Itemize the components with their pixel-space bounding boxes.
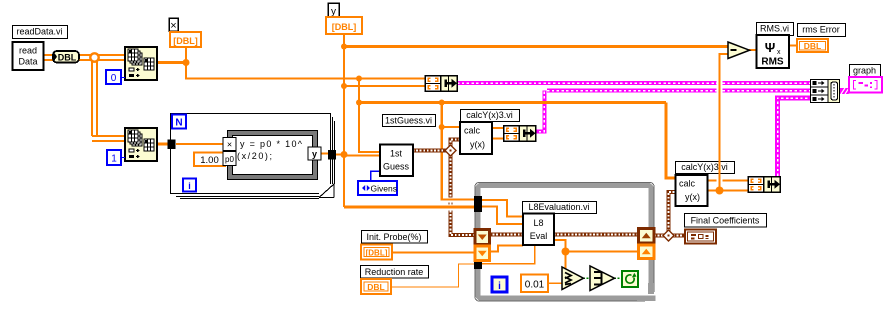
- Reduction rate label: [361, 266, 429, 279]
- for loop N: [171, 114, 335, 199]
- svg-text:×: ×: [227, 140, 232, 150]
- formula p0 terminal: [223, 152, 236, 166]
- wire: y array out of for loop: [336, 153, 344, 155]
- svg-text:p0: p0: [225, 155, 234, 164]
- for loop N badge: [172, 115, 186, 129]
- wire: L8 Eval out to shift register and compare: [554, 240, 640, 270]
- wire: tunnel1 x array to L8 Eval: [481, 200, 523, 217]
- 1st Guess node: [380, 145, 413, 177]
- wire: cluster out of loop to diamond 2: [654, 234, 664, 238]
- svg-text:0: 0: [111, 73, 117, 84]
- svg-text:Guess: Guess: [383, 162, 410, 172]
- svg-text:0.01: 0.01: [525, 280, 545, 291]
- RMS node: [757, 35, 790, 68]
- svg-text:Final Coefficients: Final Coefficients: [691, 215, 760, 225]
- RMS.vi label: [757, 23, 794, 36]
- wire: 0.01 to greater-equal: [548, 282, 564, 284]
- build array node: [810, 80, 840, 103]
- wire: cluster shift register to L8 Eval: [489, 233, 523, 237]
- wire: subtract out to RMS: [749, 49, 757, 51]
- shift register left probe (orange): [475, 246, 490, 261]
- DBL wire badge: [53, 51, 79, 63]
- index array node 2: [125, 128, 157, 161]
- svg-text:rms Error: rms Error: [802, 25, 840, 35]
- y label small box: [328, 3, 339, 18]
- svg-text:i: i: [498, 281, 501, 292]
- greater or equal node: [562, 267, 584, 290]
- wire: inside for loop to formula x: [176, 143, 229, 145]
- Final Coefficients label: [685, 214, 767, 228]
- wire: subtract feed over label: [718, 160, 720, 175]
- svg-text:calc: calc: [464, 126, 481, 136]
- junction on 2D wire: [90, 53, 98, 61]
- junction diamond 1: [445, 145, 456, 156]
- for loop i badge: [183, 179, 196, 192]
- calcY(x)3.vi label 2: [676, 162, 735, 174]
- wire: x array branch down (vertical v2): [356, 76, 380, 153]
- svg-text:Eval: Eval: [530, 231, 548, 241]
- wire: x array crossing over magenta: [537, 101, 553, 104]
- wire: readData 2D array to index arrays: [44, 55, 125, 141]
- svg-text:DBL: DBL: [804, 41, 821, 51]
- svg-text:(x/20);: (x/20);: [237, 151, 272, 161]
- wire: tunnel2 y array to L8 Eval: [481, 207, 523, 225]
- readData.vi label: [13, 26, 68, 39]
- while loop tunnel reduction: [474, 259, 482, 270]
- wire: y array into 1st Guess: [344, 155, 380, 157]
- formula node: [228, 131, 318, 180]
- calcY(x)3.vi label 1: [461, 110, 520, 122]
- constant 1.00: [194, 153, 225, 167]
- Final Coefficients indicator: [685, 230, 716, 244]
- wire: probe shift register to L8 Eval: [489, 246, 523, 252]
- wire: bundle3 cluster to build array (magenta 3): [778, 98, 811, 176]
- wire: cluster diamond2 to final coefficients: [673, 234, 686, 238]
- svg-text:Givens: Givens: [371, 183, 397, 193]
- svg-text:i: i: [188, 181, 191, 191]
- svg-text:readData.vi: readData.vi: [16, 27, 62, 37]
- wire: L8 Eval cluster out to right shift register: [554, 233, 640, 237]
- svg-text:y(x): y(x): [470, 140, 485, 150]
- wire: cluster diamond2 up to calc2: [669, 192, 677, 231]
- wire: bundle2 cluster to build array (magenta 2): [534, 91, 544, 132]
- wire: x array to calc1/calc2 (horizontal C): [356, 100, 676, 179]
- svg-text:Ψ: Ψ: [765, 40, 776, 55]
- constant 0: [106, 70, 125, 84]
- L8 Eval node: [523, 214, 554, 246]
- wire: calc2 out2 to bundle3 and subtract: [707, 54, 748, 195]
- wire: calc2 out1 to bundle3: [707, 179, 717, 181]
- wire: index array 1 output / x array constant: [157, 47, 425, 79]
- svg-text:1st: 1st: [390, 149, 403, 159]
- L8Evaluation.vi label: [523, 202, 597, 214]
- shift register left cluster (brown): [475, 230, 490, 245]
- index array node 1: [125, 47, 157, 80]
- svg-text:1: 1: [111, 154, 117, 165]
- svg-text:y: y: [312, 149, 317, 159]
- wire: y array to bundle1 lower: [344, 85, 425, 87]
- for loop dog ear: [319, 184, 335, 199]
- shift register right probe (orange): [639, 245, 655, 259]
- while loop i badge: [492, 277, 507, 292]
- svg-text:RMS: RMS: [761, 57, 784, 68]
- wire: reduction rate to tunnel: [391, 264, 476, 287]
- formula x terminal: [223, 138, 236, 151]
- wire: cluster diamond down to shift register: [449, 155, 453, 198]
- wire: y array to subtract: [344, 45, 728, 48]
- for loop right tunnel: [328, 150, 336, 160]
- while loop: [475, 183, 657, 305]
- rms Error label: [798, 24, 846, 37]
- svg-text:y(x): y(x): [685, 192, 700, 202]
- svg-text:Reduction rate: Reduction rate: [365, 267, 424, 277]
- 1stGuess.vi label: [383, 115, 436, 127]
- svg-text:×: ×: [170, 20, 176, 32]
- wire: boolean greater-equal to E: [583, 277, 590, 279]
- svg-text:calc: calc: [679, 179, 696, 189]
- E compare node: [590, 266, 615, 291]
- calc y(x) node 2: [676, 175, 708, 206]
- x array constant [DBL]: [170, 32, 201, 47]
- rms Error DBL indicator: [797, 39, 828, 52]
- wire: bundle1 cluster to build array (magenta 1): [457, 81, 717, 85]
- svg-text:DBL: DBL: [367, 282, 384, 292]
- while loop tunnel x/y arrays: [474, 196, 482, 212]
- wire: Givens enum to 1st Guess: [371, 171, 381, 181]
- loop condition terminal: [622, 271, 638, 287]
- Givens enum constant: [358, 181, 397, 195]
- graph indicator: [849, 77, 882, 93]
- wire: reduction tunnel to L8 Eval bottom: [481, 246, 535, 264]
- svg-text:1stGuess.vi: 1stGuess.vi: [385, 116, 432, 126]
- svg-text:L8: L8: [533, 218, 543, 228]
- Init. Probe(%) label: [362, 231, 428, 244]
- svg-text:L8Evaluation.vi: L8Evaluation.vi: [528, 202, 589, 212]
- svg-text:[DBL]: [DBL]: [366, 249, 388, 258]
- wire: formula y out of loop: [321, 152, 328, 154]
- wire: cluster diamond up to calc1: [451, 140, 461, 147]
- bundle node 1: [425, 76, 457, 92]
- constant 1: [107, 150, 125, 165]
- svg-text:x: x: [777, 49, 781, 56]
- wire: build array to graph (hatched): [840, 88, 853, 94]
- bundle node 2: [504, 126, 536, 142]
- svg-text:N: N: [175, 118, 182, 129]
- bundle node 3: [748, 177, 780, 193]
- x label small box: [169, 18, 178, 32]
- wire: x array into while loop (vertical v3): [439, 100, 476, 200]
- wire: index array 2 output to for loop: [157, 143, 170, 146]
- svg-text:graph: graph: [853, 66, 876, 76]
- wire: cluster 1st Guess to diamond: [413, 149, 447, 153]
- readData.vi node: [13, 42, 44, 70]
- svg-text:calcY(x)3.vi: calcY(x)3.vi: [681, 162, 728, 172]
- wire: init probe to shift register: [392, 252, 476, 254]
- y array indicator [DBL]: [326, 17, 362, 34]
- svg-text:[DBL]: [DBL]: [173, 36, 198, 46]
- svg-text:Init. Probe(%): Init. Probe(%): [366, 232, 421, 242]
- formula y terminal: [308, 147, 321, 160]
- svg-text:calcY(x)3.vi: calcY(x)3.vi: [466, 110, 513, 120]
- Reduction rate DBL control: [361, 279, 391, 294]
- wire: boolean E to loop condition: [614, 277, 622, 279]
- constant 0.01: [521, 275, 548, 293]
- graph label: [850, 65, 881, 78]
- for loop left tunnel: [168, 140, 176, 150]
- svg-text:DBL: DBL: [58, 53, 77, 63]
- wire: RMS to rms Error DBL: [789, 45, 797, 47]
- subtract node: [728, 42, 750, 59]
- svg-text:read: read: [19, 46, 37, 56]
- wire: 1.00 to p0: [225, 158, 230, 160]
- svg-text:1.00: 1.00: [200, 155, 219, 166]
- Init. Probe [DBL] control: [361, 245, 392, 260]
- svg-text:Data: Data: [18, 57, 37, 67]
- svg-text:y: y: [331, 7, 336, 18]
- calc y(x) node 1: [460, 122, 492, 154]
- svg-text:[DBL]: [DBL]: [332, 22, 357, 32]
- svg-text:RMS.vi: RMS.vi: [760, 24, 789, 34]
- shift register right cluster (brown): [639, 229, 655, 244]
- junction diamond 2: [663, 230, 674, 241]
- wire: calc1 outputs to bundle2: [492, 127, 504, 129]
- wire: y array vertical v1: [341, 34, 477, 207]
